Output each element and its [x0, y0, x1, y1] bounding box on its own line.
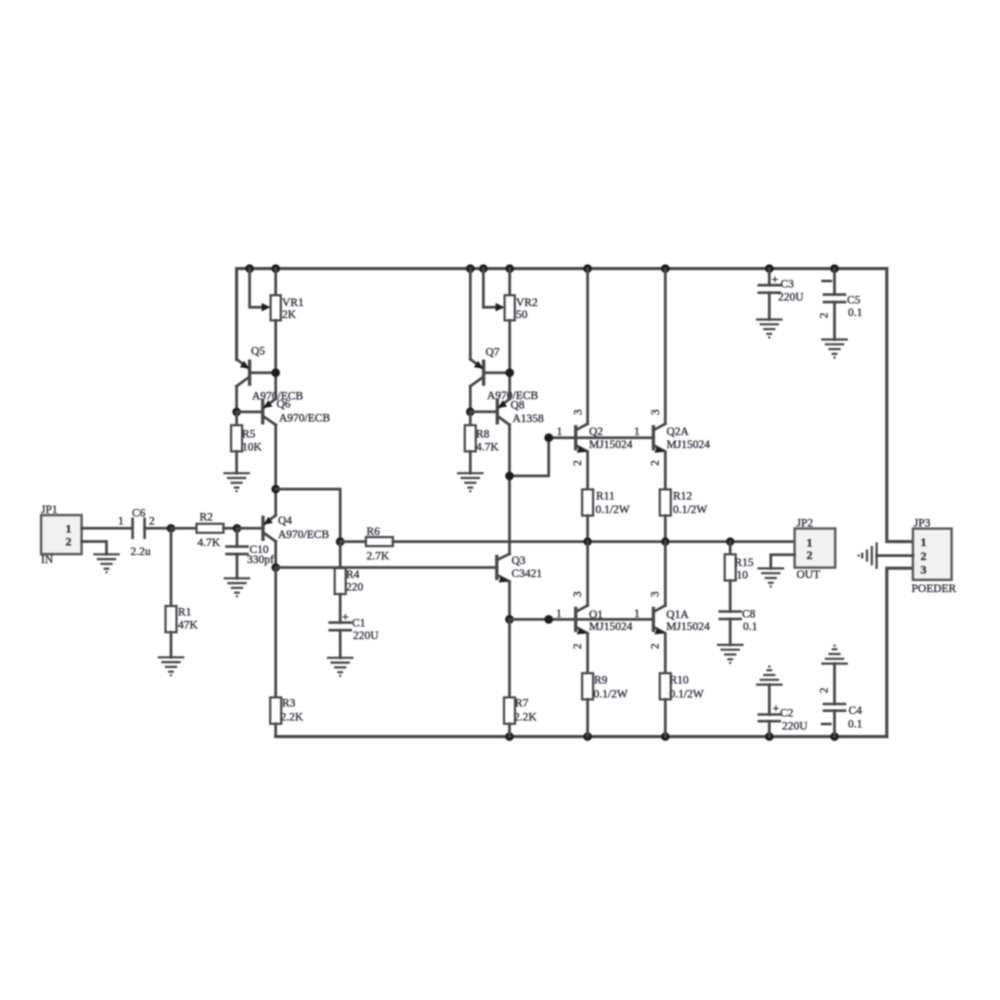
node Q4 emitter junction: [271, 485, 280, 494]
svg-text:1: 1: [557, 426, 563, 438]
capacitor C10 330pf: [227, 528, 275, 578]
svg-text:POEDER: POEDER: [912, 583, 957, 595]
svg-text:R2: R2: [200, 512, 214, 524]
node Q3 emitter / R7 / Q1 base junction: [505, 615, 514, 624]
capacitor C5 0.1: [819, 269, 863, 340]
svg-text:R5: R5: [242, 429, 256, 441]
transistor Q1A MJ15024 (NPN): [576, 542, 710, 674]
resistor R9 0.1/2W: [582, 673, 628, 736]
svg-text:Q6: Q6: [277, 399, 291, 411]
svg-text:2.2u: 2.2u: [131, 546, 151, 558]
svg-text:MJ15024: MJ15024: [589, 439, 633, 451]
svg-text:1: 1: [921, 535, 927, 549]
ground below C5: [822, 340, 846, 359]
svg-text:3: 3: [650, 409, 662, 415]
svg-text:330pf: 330pf: [247, 554, 274, 566]
svg-text:C2: C2: [780, 708, 794, 720]
svg-text:2: 2: [807, 548, 813, 562]
connector JP2 OUT: [771, 517, 835, 581]
svg-text:R9: R9: [594, 675, 608, 687]
svg-text:A970/ECB: A970/ECB: [278, 529, 329, 541]
svg-text:3: 3: [573, 409, 585, 415]
svg-text:10K: 10K: [242, 442, 263, 454]
ground below C8: [718, 645, 742, 664]
node C6 / R1 / R2 junction: [167, 524, 176, 533]
svg-text:2: 2: [650, 460, 662, 466]
svg-text:MJ15024: MJ15024: [589, 621, 633, 633]
svg-text:Q1A: Q1A: [666, 609, 689, 621]
svg-text:1: 1: [634, 426, 640, 438]
svg-text:2: 2: [649, 643, 661, 649]
svg-text:C3421: C3421: [512, 568, 543, 580]
wire right rail lower (JP3 pin3 to bottom rail): [887, 568, 913, 736]
svg-text:C3: C3: [781, 279, 795, 291]
svg-text:+: +: [773, 701, 780, 715]
svg-text:+: +: [772, 272, 779, 286]
svg-text:C6: C6: [132, 508, 146, 520]
svg-text:R8: R8: [476, 429, 490, 441]
svg-text:2: 2: [66, 535, 72, 549]
capacitor C1 220U: [330, 610, 380, 658]
resistor R12 0.1/2W: [660, 489, 708, 541]
svg-text:3: 3: [649, 591, 661, 597]
wire Q4 emitter to R6 node: [276, 489, 341, 541]
wire Q8 collector to Q2/Q2A bases jog: [505, 433, 576, 480]
ground below C1: [328, 658, 352, 677]
wire Q3 emitter node to Q1 base: [510, 615, 576, 624]
resistor R5 10K: [231, 412, 262, 473]
capacitor C8 0.1: [720, 609, 758, 645]
svg-text:3: 3: [572, 591, 584, 597]
svg-text:2K: 2K: [282, 309, 297, 321]
svg-text:2: 2: [572, 643, 584, 649]
node output rail junctions: [583, 537, 734, 545]
svg-text:Q7: Q7: [486, 347, 500, 359]
svg-text:MJ15024: MJ15024: [667, 439, 711, 451]
resistor R2 4.7K: [171, 512, 237, 550]
svg-text:1: 1: [556, 608, 562, 620]
svg-text:+: +: [342, 610, 349, 624]
ground below C10: [225, 578, 249, 597]
svg-text:OUT: OUT: [797, 569, 821, 581]
svg-text:0.1/2W: 0.1/2W: [670, 689, 704, 701]
svg-text:Q3: Q3: [512, 555, 526, 567]
svg-text:C1: C1: [352, 618, 366, 630]
svg-text:C5: C5: [847, 295, 861, 307]
svg-text:1: 1: [66, 521, 72, 535]
svg-text:0.1/2W: 0.1/2W: [596, 504, 630, 516]
resistor R1 47K: [166, 528, 199, 657]
svg-text:A1358: A1358: [513, 413, 545, 425]
capacitor C4 0.1: [819, 664, 863, 737]
wire Q4 collector down to R3: [274, 568, 277, 698]
svg-text:R10: R10: [670, 675, 689, 687]
ground at JP1 pin2: [94, 554, 118, 573]
svg-text:1: 1: [118, 516, 124, 528]
svg-text:Q2A: Q2A: [667, 426, 690, 438]
svg-text:C4: C4: [849, 705, 863, 717]
svg-text:2.2K: 2.2K: [281, 712, 304, 724]
svg-text:IN: IN: [41, 554, 54, 566]
ground above C4 (inverted): [822, 644, 846, 663]
capacitor C2 220U: [759, 685, 808, 737]
svg-text:2: 2: [819, 687, 831, 693]
resistor R6 2.7K: [340, 526, 393, 563]
wire output rail: [393, 540, 795, 543]
transistor Q4 A970/ECB (PNP): [237, 489, 329, 567]
svg-text:2.7K: 2.7K: [367, 551, 390, 563]
resistor R3 2.2K: [270, 697, 304, 736]
resistor R8 4.7K: [465, 412, 500, 473]
ground below R8: [458, 473, 482, 492]
ground below R1: [159, 657, 183, 676]
svg-text:R15: R15: [735, 557, 754, 569]
svg-text:C8: C8: [742, 609, 756, 621]
svg-text:R4: R4: [346, 569, 360, 581]
capacitor C3 220U: [759, 269, 804, 320]
connector JP1 IN: [41, 504, 131, 566]
svg-text:50: 50: [516, 309, 528, 321]
transistor Q5 A970/ECB (PNP): [237, 346, 304, 412]
svg-text:VR2: VR2: [516, 297, 538, 309]
transistor Q8 A1358 (PNP): [470, 399, 544, 554]
wire Q4 collector to Q3 base: [276, 566, 497, 569]
capacitor C6 2.2u: [118, 508, 171, 559]
svg-text:0.1: 0.1: [848, 307, 863, 319]
node bottom rail junction dots: [505, 732, 839, 741]
transistor Q2 MJ15024 (NPN): [557, 269, 633, 490]
svg-text:220U: 220U: [782, 721, 808, 733]
svg-text:MJ15024: MJ15024: [666, 621, 710, 633]
svg-text:2: 2: [149, 516, 155, 528]
potentiometer VR2 50: [483, 269, 538, 399]
ground below R5: [224, 473, 248, 492]
svg-text:0.1/2W: 0.1/2W: [594, 689, 628, 701]
transistor Q6 A970/ECB (PNP): [237, 399, 331, 490]
ground below C3: [757, 320, 781, 339]
svg-text:220U: 220U: [778, 292, 804, 304]
ground at JP2 pin2: [759, 568, 783, 587]
svg-text:0.1: 0.1: [743, 621, 758, 633]
wire top supply rail: [237, 269, 887, 360]
svg-text:R12: R12: [673, 491, 692, 503]
svg-text:R11: R11: [596, 491, 615, 503]
node top rail junction dots: [245, 264, 839, 273]
svg-text:JP2: JP2: [797, 517, 814, 529]
svg-text:R3: R3: [282, 698, 296, 710]
svg-text:0.1/2W: 0.1/2W: [673, 504, 707, 516]
connector JP3 POEDER: [912, 517, 957, 595]
svg-text:47K: 47K: [178, 620, 199, 632]
svg-text:A970/ECB: A970/ECB: [279, 413, 330, 425]
transistor Q1 MJ15024 (NPN): [556, 542, 633, 674]
svg-text:2: 2: [572, 460, 584, 466]
resistor R4 220: [335, 568, 364, 623]
wire R4 top: [339, 542, 342, 569]
svg-text:4.7K: 4.7K: [476, 442, 499, 454]
svg-text:10: 10: [737, 570, 749, 582]
transistor Q2A MJ15024 (NPN): [576, 269, 711, 490]
svg-text:R7: R7: [515, 698, 529, 710]
resistor R7 2.2K: [504, 697, 537, 736]
resistor R15 10: [725, 542, 754, 612]
svg-text:2: 2: [921, 549, 927, 563]
resistor R10 0.1/2W: [660, 673, 704, 736]
node R2 / C10 / Q4 base junction: [233, 524, 242, 533]
svg-text:R1: R1: [178, 607, 192, 619]
svg-text:Q5: Q5: [251, 346, 265, 358]
svg-text:220U: 220U: [353, 630, 379, 642]
node R6 left junction: [336, 537, 345, 546]
potentiometer VR1 2K: [250, 269, 304, 399]
svg-text:Q4: Q4: [278, 515, 292, 527]
transistor Q3 C3421 (NPN): [497, 554, 543, 620]
svg-text:R6: R6: [367, 526, 381, 538]
node Q7 collector / R8 / Q8 base junction: [466, 408, 475, 417]
svg-text:1: 1: [634, 608, 640, 620]
wire JP3 pin2 to ground: [877, 554, 913, 557]
svg-text:3: 3: [921, 562, 927, 576]
svg-text:2.2K: 2.2K: [514, 712, 537, 724]
svg-text:220: 220: [346, 582, 364, 594]
svg-text:4.7K: 4.7K: [198, 537, 221, 549]
svg-text:VR1: VR1: [282, 297, 304, 309]
svg-text:Q8: Q8: [511, 400, 525, 412]
transistor Q7 A970/ECB (PNP): [470, 269, 538, 412]
wire Q3 emitter down to R7: [508, 619, 511, 697]
node Q4 collector junction: [271, 563, 280, 572]
svg-text:JP1: JP1: [41, 504, 58, 516]
ground at JP3 pin2 (rotated): [857, 543, 876, 567]
wire right supply rail upper: [887, 269, 913, 542]
ground above C2 (inverted): [757, 665, 781, 684]
svg-text:0.1: 0.1: [848, 719, 863, 731]
svg-text:JP3: JP3: [914, 517, 931, 529]
wire bottom rail: [276, 735, 887, 738]
svg-text:2: 2: [819, 312, 831, 318]
resistor R11 0.1/2W: [582, 489, 630, 541]
node Q5 collector / R5 / Q6 base junction: [232, 408, 241, 417]
